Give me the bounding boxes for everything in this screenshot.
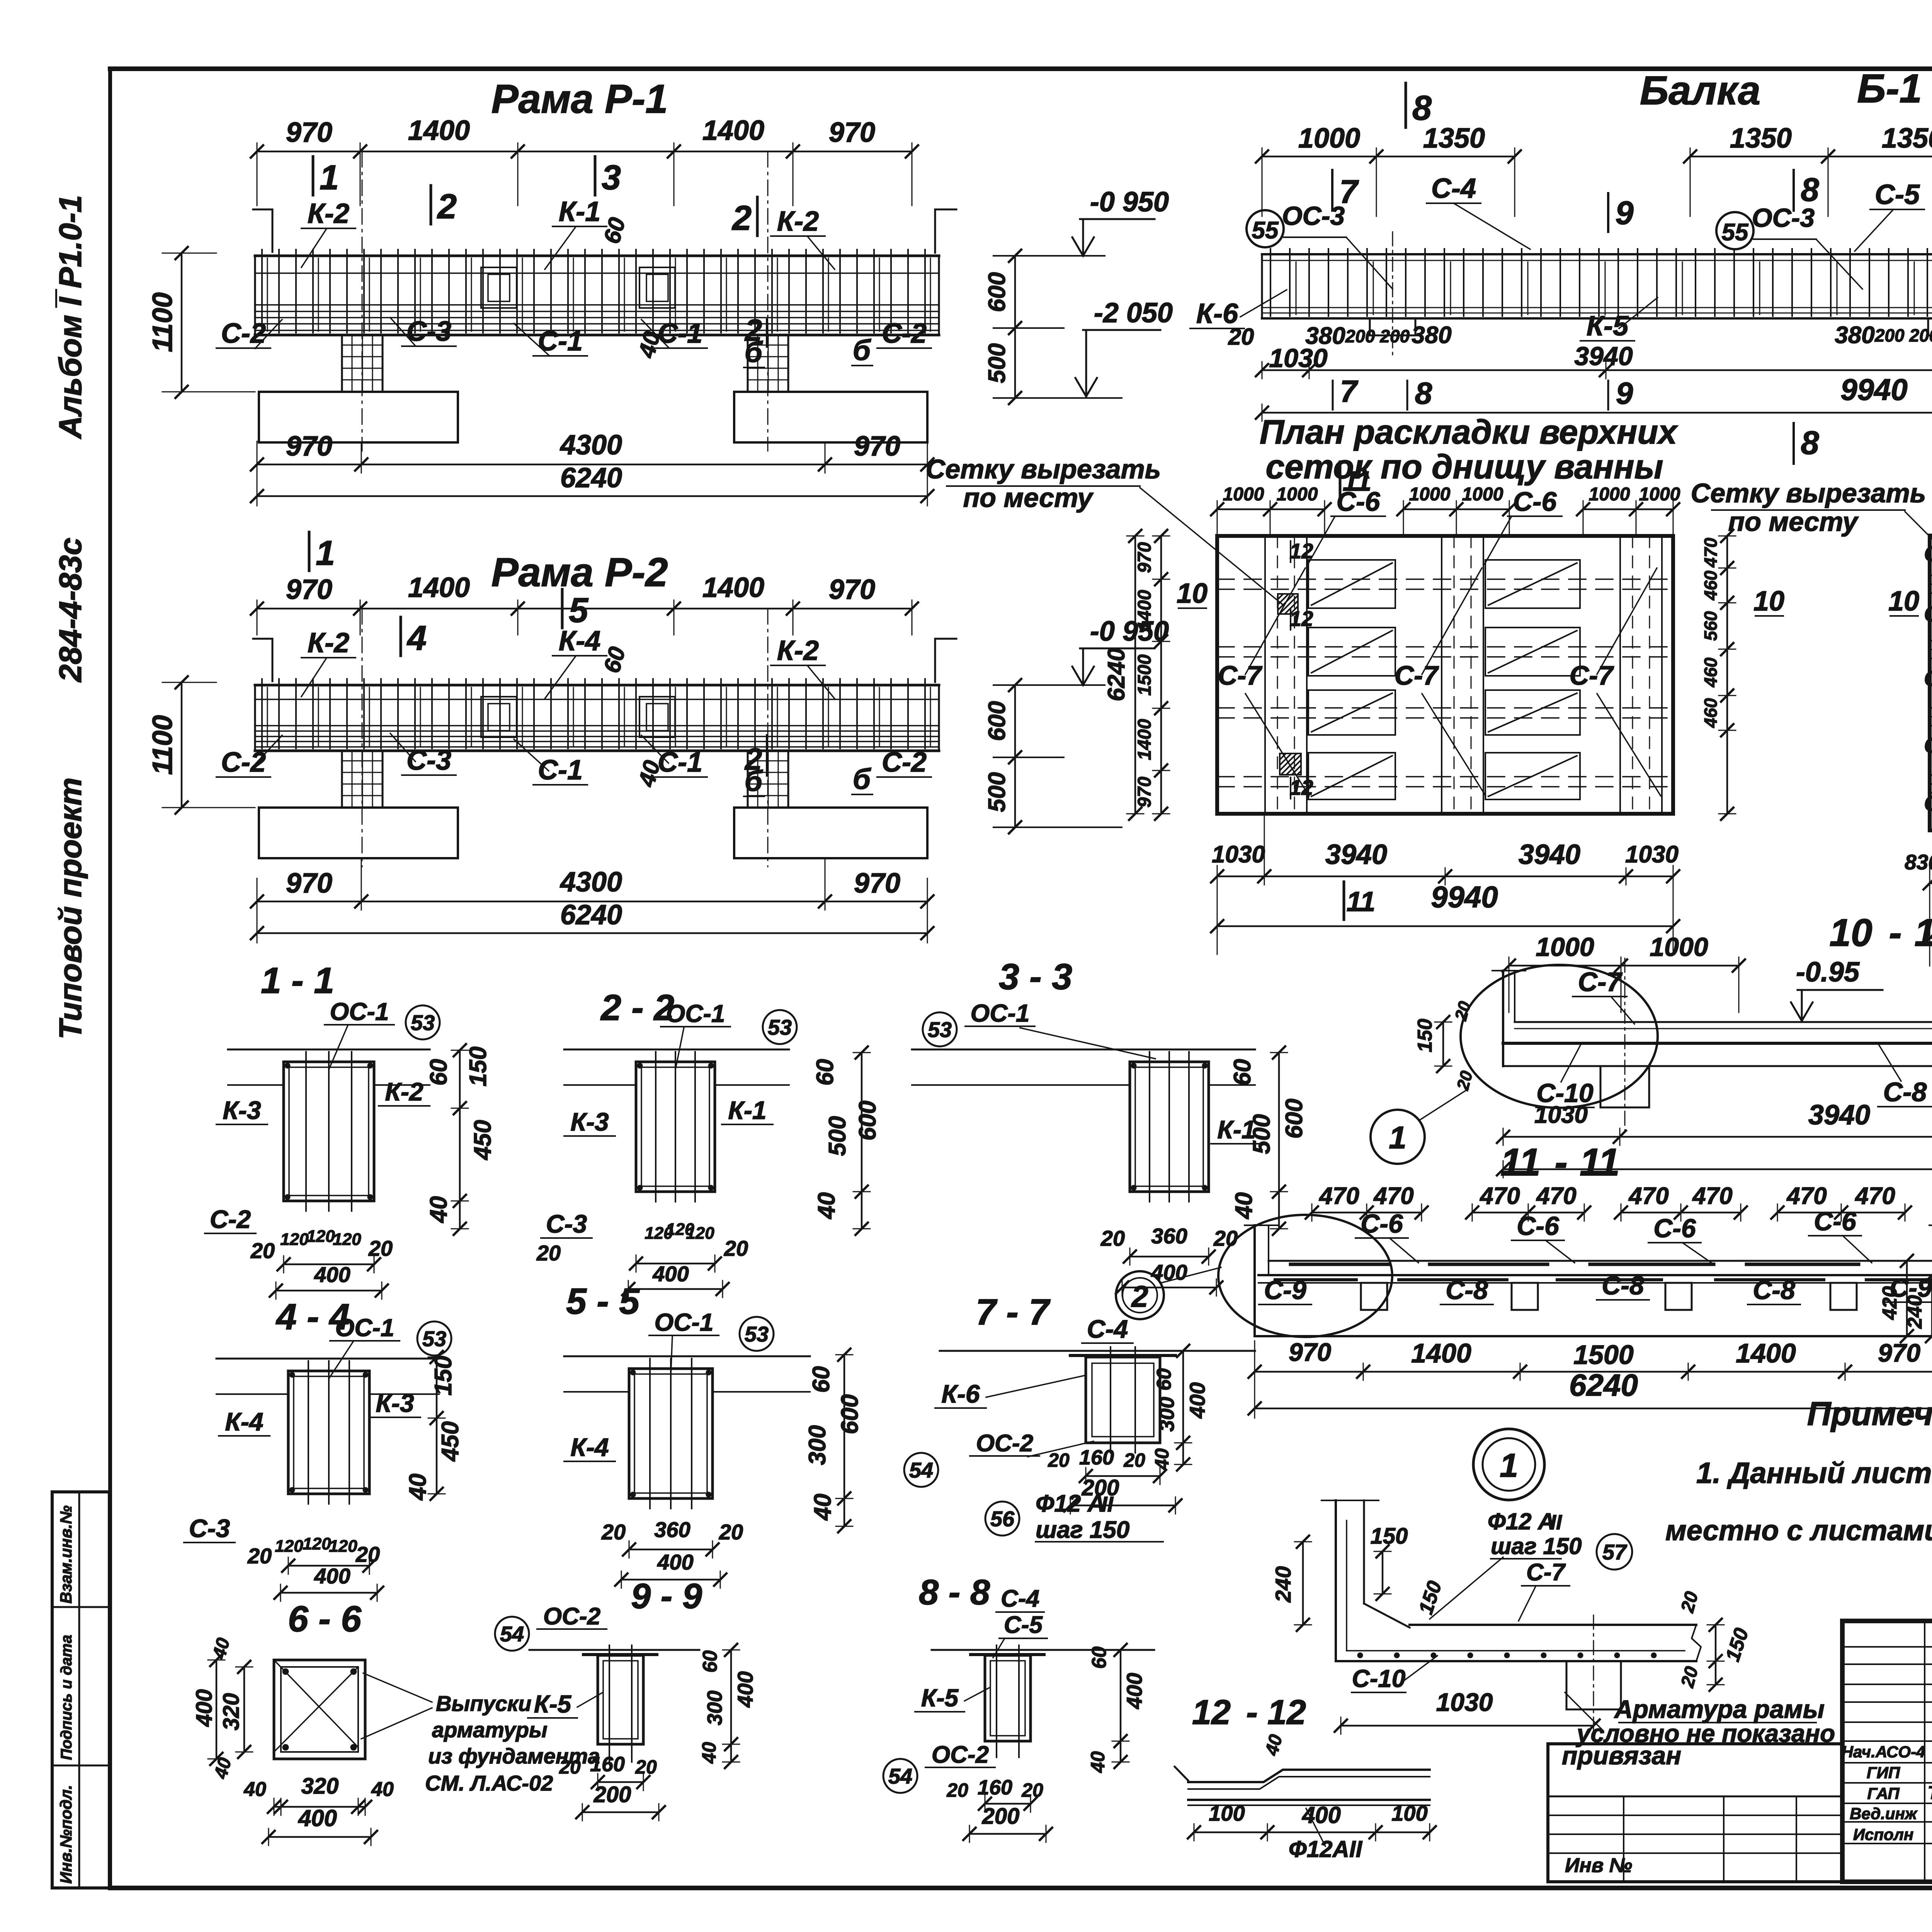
svg-text:20: 20 — [1228, 324, 1254, 350]
svg-text:300: 300 — [1155, 1397, 1179, 1432]
svg-text:1030: 1030 — [1269, 344, 1327, 373]
svg-text:1350: 1350 — [1730, 123, 1792, 154]
svg-text:60: 60 — [699, 1650, 721, 1673]
svg-text:ОС-1: ОС-1 — [330, 998, 389, 1026]
svg-text:С-7: С-7 — [1570, 660, 1614, 690]
svg-text:120: 120 — [280, 1230, 309, 1249]
svg-text:970: 970 — [1289, 1338, 1331, 1366]
svg-text:1000: 1000 — [1298, 123, 1360, 154]
svg-text:400: 400 — [192, 1689, 217, 1727]
svg-text:53: 53 — [422, 1327, 446, 1351]
svg-text:С-1: С-1 — [538, 755, 583, 786]
svg-text:8: 8 — [1801, 172, 1819, 208]
svg-text:С-4: С-4 — [1087, 1315, 1128, 1343]
svg-text:шаг 150: шаг 150 — [1036, 1517, 1129, 1543]
svg-text:120: 120 — [306, 1227, 335, 1246]
svg-text:С-11: С-11 — [1924, 791, 1932, 815]
svg-text:1400: 1400 — [702, 115, 764, 146]
svg-text:400: 400 — [1302, 1802, 1341, 1828]
svg-text:1400: 1400 — [408, 572, 470, 603]
svg-text:С-4: С-4 — [1001, 1585, 1039, 1612]
svg-text:С-5: С-5 — [1004, 1612, 1043, 1638]
svg-text:9: 9 — [1615, 195, 1633, 231]
svg-text:К-6: К-6 — [941, 1379, 980, 1408]
svg-text:ОС-3: ОС-3 — [1282, 201, 1345, 231]
svg-text:6240: 6240 — [1569, 1368, 1638, 1402]
svg-text:300: 300 — [703, 1690, 726, 1725]
svg-text:б: б — [853, 763, 872, 795]
svg-text:Выпуски: Выпуски — [436, 1691, 531, 1716]
svg-text:1500: 1500 — [1573, 1340, 1634, 1370]
svg-text:ГАП: ГАП — [1867, 1784, 1900, 1803]
svg-text:Ф12 А: Ф12 А — [1036, 1490, 1105, 1517]
svg-text:4300: 4300 — [560, 867, 622, 898]
svg-text:55: 55 — [1722, 219, 1749, 246]
svg-text:970: 970 — [286, 117, 332, 148]
svg-text:560: 560 — [1701, 611, 1721, 641]
svg-text:300: 300 — [804, 1425, 831, 1465]
svg-text:Рама Р-1: Рама Р-1 — [491, 77, 668, 122]
svg-text:1350: 1350 — [1882, 123, 1932, 154]
svg-text:54: 54 — [909, 1458, 933, 1482]
svg-text:10: 10 — [1177, 578, 1207, 609]
svg-text:ОС-1: ОС-1 — [666, 1000, 725, 1027]
svg-text:местно с листами АС-07: 08; 01: местно с листами АС-07: 08; 010÷013: — [1665, 1514, 1932, 1546]
svg-text:970: 970 — [854, 431, 900, 462]
svg-text:3940: 3940 — [1519, 839, 1580, 870]
svg-text:240: 240 — [1904, 1295, 1926, 1329]
svg-text:-: - — [1246, 1693, 1258, 1732]
svg-text:5: 5 — [569, 591, 589, 630]
svg-text:С-3: С-3 — [189, 1514, 230, 1543]
svg-text:2: 2 — [1131, 1279, 1148, 1313]
svg-text:150: 150 — [465, 1046, 492, 1086]
svg-text:53: 53 — [768, 1015, 792, 1039]
svg-text:8: 8 — [1412, 89, 1432, 128]
svg-text:970: 970 — [286, 868, 332, 899]
svg-text:60: 60 — [599, 644, 630, 676]
svg-text:6240: 6240 — [560, 463, 622, 493]
svg-text:3940: 3940 — [1808, 1100, 1870, 1131]
svg-text:К-3: К-3 — [223, 1096, 261, 1124]
svg-text:470: 470 — [1479, 1183, 1520, 1209]
svg-text:20: 20 — [536, 1241, 561, 1265]
svg-text:400: 400 — [1185, 1382, 1209, 1418]
svg-text:К-4: К-4 — [559, 626, 600, 656]
svg-text:20: 20 — [1021, 1779, 1043, 1801]
svg-text:С-7: С-7 — [1395, 660, 1439, 690]
svg-text:20: 20 — [355, 1542, 380, 1566]
svg-text:450: 450 — [469, 1120, 496, 1160]
svg-text:380: 380 — [1412, 322, 1451, 349]
svg-text:9940: 9940 — [1840, 372, 1908, 406]
svg-text:Балка: Балка — [1640, 68, 1760, 113]
svg-text:450: 450 — [437, 1421, 464, 1462]
svg-text:Вед.инж: Вед.инж — [1850, 1804, 1918, 1823]
svg-text:С-10: С-10 — [1924, 733, 1932, 757]
svg-text:С-8: С-8 — [1883, 1077, 1927, 1107]
svg-text:40: 40 — [698, 1742, 720, 1764]
svg-text:Примечание: Примечание — [1807, 1395, 1932, 1432]
svg-text:11: 11 — [1500, 1141, 1541, 1184]
svg-text:9: 9 — [1616, 376, 1633, 410]
svg-text:С-7: С-7 — [1526, 1559, 1566, 1586]
svg-text:С-7: С-7 — [1218, 660, 1263, 690]
svg-text:40: 40 — [813, 1192, 840, 1220]
svg-text:20: 20 — [559, 1756, 581, 1778]
svg-text:400: 400 — [314, 1564, 350, 1588]
svg-text:20: 20 — [601, 1520, 626, 1544]
svg-text:12: 12 — [1289, 607, 1313, 631]
svg-text:С-2: С-2 — [882, 318, 927, 349]
svg-text:1400: 1400 — [1736, 1338, 1796, 1368]
svg-text:12: 12 — [1192, 1693, 1231, 1732]
svg-text:60: 60 — [425, 1059, 452, 1086]
svg-text:1030: 1030 — [1625, 841, 1679, 868]
svg-text:Типовой проект: Типовой проект — [53, 777, 88, 1039]
svg-text:400: 400 — [1151, 1260, 1187, 1284]
svg-text:ОС-1: ОС-1 — [655, 1308, 714, 1336]
svg-text:С-6: С-6 — [1517, 1211, 1560, 1241]
svg-text:1000: 1000 — [1589, 484, 1630, 505]
svg-text:10: 10 — [1753, 586, 1784, 617]
svg-text:1100: 1100 — [147, 293, 178, 352]
svg-text:Сетку вырезать: Сетку вырезать — [1691, 478, 1926, 508]
svg-text:С-8: С-8 — [1602, 1271, 1644, 1300]
svg-text:К-3: К-3 — [376, 1389, 414, 1417]
svg-text:200 200: 200 200 — [1345, 326, 1410, 346]
svg-text:470: 470 — [1536, 1183, 1576, 1209]
svg-text:400: 400 — [657, 1550, 693, 1574]
svg-text:60: 60 — [1229, 1059, 1256, 1086]
svg-text:К-2: К-2 — [308, 198, 349, 229]
svg-text:Инв.№подл.: Инв.№подл. — [57, 1785, 75, 1884]
svg-text:привязан: привязан — [1562, 1741, 1681, 1770]
svg-text:120: 120 — [333, 1230, 361, 1249]
svg-text:1030: 1030 — [1436, 1688, 1493, 1716]
svg-text:20: 20 — [946, 1779, 968, 1801]
svg-text:40: 40 — [1087, 1751, 1109, 1773]
svg-text:1400: 1400 — [1134, 590, 1155, 631]
svg-text:200: 200 — [982, 1804, 1020, 1829]
svg-text:600: 600 — [1281, 1099, 1308, 1138]
svg-text:120: 120 — [303, 1534, 331, 1553]
svg-text:1000: 1000 — [1650, 932, 1708, 962]
svg-text:970: 970 — [286, 574, 332, 605]
svg-text:150: 150 — [1721, 1625, 1753, 1664]
svg-text:б: б — [853, 334, 872, 366]
svg-text:40: 40 — [209, 1636, 234, 1662]
svg-text:120: 120 — [686, 1224, 714, 1243]
svg-text:200 200: 200 200 — [1874, 325, 1932, 345]
svg-text:С-6: С-6 — [1513, 486, 1557, 517]
svg-text:320: 320 — [301, 1774, 339, 1799]
svg-text:40: 40 — [405, 1474, 431, 1501]
svg-text:970: 970 — [829, 117, 875, 148]
svg-text:500: 500 — [984, 772, 1010, 812]
svg-text:шаг 150: шаг 150 — [1491, 1533, 1582, 1559]
svg-text:К-3: К-3 — [570, 1107, 609, 1136]
svg-text:20: 20 — [1677, 1589, 1702, 1615]
svg-text:600: 600 — [984, 701, 1010, 741]
svg-text:ОС-2: ОС-2 — [932, 1742, 989, 1768]
svg-text:53: 53 — [411, 1010, 435, 1035]
svg-text:С-3: С-3 — [406, 745, 451, 776]
svg-text:40: 40 — [371, 1778, 394, 1801]
svg-text:57: 57 — [1602, 1540, 1628, 1564]
svg-text:сеток по днищу ванны: сеток по днищу ванны — [1265, 447, 1663, 486]
svg-text:С-5: С-5 — [1875, 179, 1920, 210]
svg-text:Сетку вырезать: Сетку вырезать — [926, 454, 1161, 484]
svg-text:460: 460 — [1701, 657, 1721, 687]
svg-text:С-10: С-10 — [1352, 1665, 1406, 1692]
svg-text:150: 150 — [1415, 1578, 1446, 1617]
svg-text:10: 10 — [1888, 586, 1919, 617]
svg-text:С-2: С-2 — [882, 747, 927, 778]
svg-text:С-1: С-1 — [658, 318, 702, 349]
svg-text:К-2: К-2 — [385, 1077, 423, 1106]
svg-text:Альбом I̅ Р1.0-1: Альбом I̅ Р1.0-1 — [53, 195, 88, 439]
svg-text:470: 470 — [1854, 1183, 1895, 1209]
svg-text:-0 950: -0 950 — [1090, 187, 1169, 218]
svg-text:6240: 6240 — [560, 900, 622, 930]
svg-text:С-3: С-3 — [546, 1209, 587, 1238]
svg-text:11: 11 — [1343, 466, 1372, 497]
svg-text:К-1: К-1 — [728, 1096, 766, 1124]
svg-text:1: 1 — [316, 534, 335, 573]
svg-text:С-2: С-2 — [221, 747, 266, 778]
svg-text:11: 11 — [1580, 1141, 1620, 1184]
svg-text:380: 380 — [1835, 322, 1874, 349]
svg-text:ОС-1: ОС-1 — [971, 999, 1030, 1027]
svg-text:420: 420 — [1879, 1286, 1901, 1320]
svg-text:600: 600 — [984, 272, 1010, 312]
svg-text:5 - 5: 5 - 5 — [566, 1281, 640, 1322]
svg-text:40: 40 — [1151, 1448, 1173, 1470]
svg-text:1400: 1400 — [408, 115, 470, 146]
svg-text:1: 1 — [320, 158, 339, 197]
svg-text:54: 54 — [500, 1622, 524, 1646]
svg-text:20: 20 — [1677, 1664, 1702, 1690]
svg-text:К-2: К-2 — [777, 635, 819, 666]
svg-text:360: 360 — [654, 1517, 690, 1542]
svg-text:Рама Р-2: Рама Р-2 — [491, 550, 668, 595]
svg-text:11: 11 — [1347, 886, 1376, 917]
svg-text:12: 12 — [1267, 1693, 1306, 1732]
svg-text:20: 20 — [247, 1544, 272, 1568]
svg-text:6240: 6240 — [1103, 648, 1130, 701]
svg-text:арматуры: арматуры — [432, 1718, 548, 1742]
svg-text:55: 55 — [1252, 217, 1279, 244]
svg-text:830: 830 — [1905, 850, 1932, 874]
svg-text:С-3: С-3 — [406, 316, 451, 347]
svg-text:470: 470 — [1786, 1183, 1827, 1209]
svg-text:б: б — [745, 336, 764, 368]
svg-text:150: 150 — [1414, 1019, 1436, 1053]
svg-text:План раскладки верхних: План раскладки верхних — [1260, 413, 1678, 451]
svg-text:56: 56 — [990, 1507, 1015, 1531]
svg-text:Б-1: Б-1 — [1857, 66, 1922, 111]
svg-text:120: 120 — [275, 1537, 303, 1556]
svg-text:2: 2 — [731, 199, 752, 238]
svg-text:150: 150 — [430, 1355, 457, 1395]
svg-text:2 - 2: 2 - 2 — [600, 987, 674, 1028]
svg-text:20: 20 — [635, 1756, 657, 1778]
svg-text:1 - 1: 1 - 1 — [261, 960, 334, 1001]
svg-text:2: 2 — [437, 187, 457, 226]
svg-text:360: 360 — [1151, 1224, 1187, 1248]
svg-text:1400: 1400 — [1134, 719, 1155, 760]
svg-text:1500: 1500 — [1134, 654, 1155, 696]
svg-text:60: 60 — [1088, 1646, 1111, 1669]
svg-text:С-2: С-2 — [210, 1205, 251, 1233]
svg-text:-: - — [1889, 911, 1901, 954]
svg-text:100: 100 — [1209, 1801, 1245, 1825]
svg-text:-0 950: -0 950 — [1090, 616, 1169, 647]
svg-text:320: 320 — [219, 1693, 244, 1731]
svg-text:400: 400 — [733, 1671, 757, 1708]
svg-text:Подпись и дата: Подпись и дата — [58, 1635, 75, 1760]
svg-text:60: 60 — [1153, 1368, 1175, 1391]
svg-text:470: 470 — [1628, 1183, 1668, 1209]
svg-text:1: 1 — [1500, 1447, 1518, 1484]
svg-text:8: 8 — [1801, 425, 1819, 461]
svg-text:ОС-1: ОС-1 — [335, 1314, 395, 1342]
svg-text:б: б — [745, 765, 764, 797]
svg-text:1400: 1400 — [1411, 1338, 1471, 1368]
svg-text:100: 100 — [1391, 1801, 1427, 1825]
svg-text:Арматура рамы: Арматура рамы — [1614, 1695, 1825, 1723]
svg-text:Ф12 А: Ф12 А — [1488, 1509, 1555, 1534]
svg-text:Исполн: Исполн — [1853, 1825, 1913, 1844]
svg-text:1000: 1000 — [1277, 484, 1318, 505]
svg-text:К-1: К-1 — [559, 196, 600, 227]
svg-text:40: 40 — [425, 1196, 452, 1224]
svg-text:970: 970 — [286, 431, 332, 462]
svg-text:С-1: С-1 — [658, 747, 702, 778]
svg-text:160: 160 — [1079, 1446, 1114, 1469]
svg-text:4: 4 — [406, 619, 427, 658]
svg-text:1350: 1350 — [1423, 123, 1485, 154]
svg-text:160: 160 — [978, 1776, 1012, 1799]
svg-text:54: 54 — [888, 1764, 912, 1788]
svg-text:470: 470 — [1318, 1183, 1359, 1209]
svg-text:7: 7 — [1340, 374, 1359, 408]
svg-text:20: 20 — [724, 1236, 748, 1260]
svg-text:1400: 1400 — [702, 572, 764, 603]
svg-text:120: 120 — [329, 1537, 357, 1556]
svg-text:400: 400 — [298, 1805, 337, 1831]
svg-text:20: 20 — [1213, 1226, 1238, 1250]
svg-text:К-2: К-2 — [308, 628, 349, 658]
svg-text:С-7: С-7 — [1578, 967, 1623, 997]
svg-text:160: 160 — [590, 1753, 625, 1776]
svg-text:8 - 8: 8 - 8 — [919, 1573, 990, 1612]
svg-text:1030: 1030 — [1212, 841, 1265, 868]
svg-text:1030: 1030 — [1534, 1102, 1588, 1128]
svg-text:9940: 9940 — [1431, 880, 1498, 914]
svg-text:20: 20 — [1123, 1449, 1145, 1471]
svg-text:С-11: С-11 — [1924, 541, 1932, 566]
svg-text:53: 53 — [745, 1322, 769, 1346]
svg-text:1000: 1000 — [1462, 484, 1503, 505]
svg-text:1000: 1000 — [1639, 484, 1680, 505]
svg-text:Взам.инв.№: Взам.инв.№ — [57, 1505, 75, 1604]
svg-text:970: 970 — [854, 868, 900, 899]
svg-text:1. Данный лист смотреть сов-: 1. Данный лист смотреть сов- — [1696, 1457, 1932, 1490]
svg-text:400: 400 — [1122, 1673, 1146, 1709]
svg-text:по месту: по месту — [963, 483, 1094, 513]
svg-text:4300: 4300 — [560, 430, 622, 461]
svg-text:3 - 3: 3 - 3 — [999, 956, 1072, 997]
svg-text:600: 600 — [854, 1100, 881, 1140]
svg-text:12: 12 — [1289, 539, 1313, 563]
svg-text:СМ. Л.АС-02: СМ. Л.АС-02 — [425, 1771, 553, 1795]
svg-text:Ф12АII: Ф12АII — [1289, 1836, 1363, 1862]
svg-text:400: 400 — [652, 1262, 689, 1286]
svg-text:-2 050: -2 050 — [1094, 298, 1173, 328]
svg-text:60: 60 — [812, 1059, 838, 1086]
svg-text:500: 500 — [984, 343, 1010, 383]
svg-text:С-9: С-9 — [1264, 1276, 1306, 1305]
svg-text:6 - 6: 6 - 6 — [288, 1599, 362, 1639]
svg-text:С-4: С-4 — [1431, 173, 1476, 204]
svg-text:1: 1 — [1389, 1120, 1406, 1155]
svg-text:С-6: С-6 — [1653, 1214, 1696, 1243]
svg-text:ОС-3: ОС-3 — [1752, 203, 1815, 233]
svg-text:1000: 1000 — [1223, 484, 1264, 505]
svg-text:970: 970 — [1878, 1338, 1920, 1367]
svg-text:10: 10 — [1829, 911, 1872, 954]
svg-text:С-10: С-10 — [1924, 602, 1932, 626]
svg-text:10: 10 — [1914, 911, 1932, 954]
svg-text:600: 600 — [837, 1394, 863, 1434]
svg-text:К-4: К-4 — [225, 1407, 263, 1436]
svg-text:470: 470 — [1692, 1183, 1732, 1209]
svg-text:К-2: К-2 — [777, 206, 819, 237]
svg-text:40: 40 — [243, 1778, 266, 1801]
svg-text:40: 40 — [810, 1494, 836, 1521]
svg-text:С-10: С-10 — [1924, 666, 1932, 690]
svg-text:3940: 3940 — [1574, 342, 1633, 371]
svg-text:60: 60 — [808, 1366, 835, 1393]
svg-text:20: 20 — [1048, 1449, 1070, 1471]
svg-text:-0.95: -0.95 — [1796, 957, 1860, 988]
svg-text:60: 60 — [599, 215, 630, 247]
svg-text:500: 500 — [824, 1116, 851, 1156]
svg-text:7 - 7: 7 - 7 — [976, 1292, 1051, 1333]
svg-text:1000: 1000 — [1409, 484, 1451, 505]
svg-text:200: 200 — [594, 1782, 631, 1807]
svg-text:3940: 3940 — [1325, 839, 1387, 870]
svg-text:3: 3 — [602, 158, 621, 197]
svg-text:Инв №: Инв № — [1565, 1854, 1632, 1877]
svg-text:20: 20 — [719, 1520, 743, 1544]
svg-text:460: 460 — [1701, 698, 1721, 728]
svg-text:470: 470 — [1373, 1183, 1413, 1209]
svg-text:С-8: С-8 — [1446, 1276, 1488, 1305]
svg-text:970: 970 — [1134, 542, 1155, 573]
svg-text:1000: 1000 — [1536, 932, 1594, 962]
svg-text:Тохтаганов: Тохтаганов — [1928, 1783, 1932, 1803]
svg-text:II: II — [1101, 1492, 1114, 1516]
svg-text:ГИП: ГИП — [1867, 1764, 1900, 1782]
svg-text:ОС-2: ОС-2 — [543, 1603, 600, 1630]
svg-text:284-4-83с: 284-4-83с — [53, 537, 88, 683]
svg-text:Нач.АСО-4: Нач.АСО-4 — [1842, 1743, 1925, 1761]
svg-text:460: 460 — [1701, 570, 1721, 600]
svg-text:К-4: К-4 — [570, 1433, 609, 1461]
